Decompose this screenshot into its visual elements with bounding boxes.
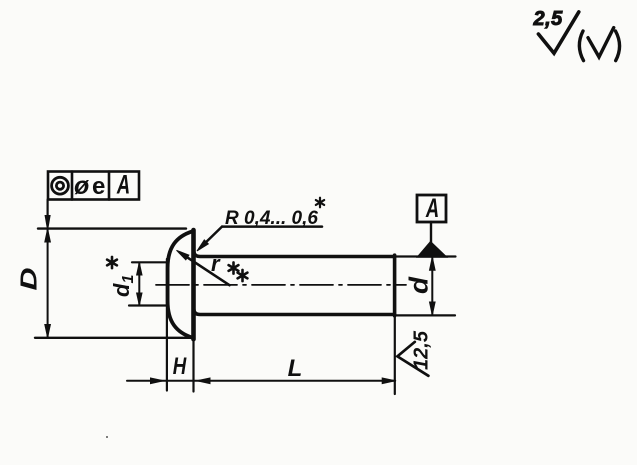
svg-text:A: A (116, 169, 130, 199)
parenthesis right (616, 31, 620, 61)
datum leader line (430, 222, 432, 243)
extension line H right below head (192, 339, 194, 391)
svg-text:12,5: 12,5 (411, 330, 433, 370)
tolerance frame leader line (46, 200, 48, 218)
arrow d bottom (430, 302, 436, 315)
fillet callout asterisk 1 (229, 262, 239, 273)
arrow H left (outside pointing right) (151, 378, 164, 384)
svg-text:d: d (404, 276, 434, 294)
extension line top of d1 (132, 261, 167, 263)
tolerance frame box (48, 172, 139, 200)
parenthesis left (579, 31, 583, 61)
extension line bottom of D (35, 337, 194, 339)
arrow L left (pointing left) (197, 378, 210, 384)
arrow d top (430, 257, 436, 270)
tolerance frame divider 2 (108, 172, 111, 200)
dimension line d1 (138, 263, 140, 306)
datum filled triangle (417, 242, 447, 258)
extension line top of D (38, 227, 186, 229)
arrow L right (pointing right) (382, 378, 395, 384)
svg-text:r: r (211, 251, 221, 276)
svg-text:e: e (92, 173, 105, 200)
roughness 12,5 check symbol at shank end (397, 342, 428, 376)
tolerance frame leader arrow (45, 216, 50, 231)
svg-text:D: D (16, 268, 42, 291)
rivet shank end line (393, 255, 397, 316)
svg-text:ø: ø (74, 172, 89, 200)
fillet callout arrow (177, 250, 189, 259)
rivet shank top line (194, 252, 395, 257)
svg-text:H: H (173, 353, 187, 380)
arrow D top (45, 229, 51, 242)
rivet head face line (191, 230, 196, 339)
fillet callout asterisk 2 (238, 270, 248, 281)
extension line H left (166, 259, 168, 391)
arrow d1 top (137, 263, 142, 275)
asterisk of d1 (107, 257, 117, 268)
svg-text:L: L (288, 355, 303, 382)
extension line bottom of d1 (129, 304, 166, 306)
svg-text:A: A (425, 192, 439, 222)
centerline of rivet axis (156, 284, 406, 286)
radius callout underline (222, 225, 322, 228)
speck at bottom (106, 436, 108, 438)
concentricity symbol inner circle (56, 182, 63, 189)
radius callout arrow (197, 240, 208, 251)
datum A box (417, 195, 446, 222)
concentricity symbol outer circle (52, 177, 69, 194)
svg-text:2,5: 2,5 (533, 8, 564, 30)
roughness check symbol (538, 12, 578, 53)
arrow d1 bottom (137, 293, 142, 305)
radius callout leader (200, 227, 222, 248)
extension line of shank top (datum surface) (396, 255, 456, 257)
rivet head dome arc (168, 231, 193, 337)
extension line L right (394, 316, 396, 394)
extension line of shank bottom right (396, 314, 455, 316)
fillet callout leader r** (180, 253, 230, 286)
svg-text:d1: d1 (109, 275, 137, 297)
dimension line d (431, 257, 433, 315)
dimension line H and L (127, 380, 395, 382)
arrow D bottom (45, 325, 51, 338)
dimension line D (47, 229, 49, 338)
tolerance frame divider 1 (71, 172, 74, 200)
roughness check in parentheses (588, 28, 614, 57)
rivet shank bottom line (194, 310, 395, 315)
